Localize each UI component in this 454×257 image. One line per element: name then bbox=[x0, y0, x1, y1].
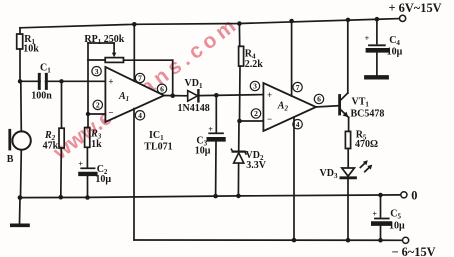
svg-text:2: 2 bbox=[96, 101, 100, 110]
svg-text:−: − bbox=[267, 114, 272, 124]
svg-text:− 6~15V: − 6~15V bbox=[392, 245, 436, 257]
svg-text:+: + bbox=[78, 160, 83, 169]
svg-text:C5: C5 bbox=[390, 209, 401, 221]
svg-text:3.3V: 3.3V bbox=[246, 160, 267, 171]
svg-text:+: + bbox=[267, 90, 272, 100]
svg-text:10k: 10k bbox=[23, 44, 39, 55]
svg-text:7: 7 bbox=[296, 83, 300, 92]
svg-text:100n: 100n bbox=[31, 90, 52, 101]
svg-text:470Ω: 470Ω bbox=[355, 139, 378, 150]
svg-text:C1: C1 bbox=[40, 63, 51, 75]
svg-text:+: + bbox=[208, 125, 213, 134]
svg-text:BC5478: BC5478 bbox=[351, 109, 385, 120]
svg-text:7: 7 bbox=[138, 74, 142, 83]
svg-text:3: 3 bbox=[253, 82, 257, 91]
svg-text:10μ: 10μ bbox=[95, 174, 111, 185]
svg-text:B: B bbox=[7, 154, 14, 165]
svg-text:RP1 250k: RP1 250k bbox=[84, 34, 124, 46]
svg-text:4: 4 bbox=[138, 111, 142, 120]
svg-text:TL071: TL071 bbox=[144, 142, 172, 153]
svg-text:4: 4 bbox=[296, 120, 300, 129]
svg-text:47k: 47k bbox=[43, 141, 59, 152]
svg-text:1k: 1k bbox=[91, 139, 102, 150]
svg-text:0: 0 bbox=[411, 188, 417, 202]
svg-text:+: + bbox=[365, 34, 370, 43]
svg-text:+: + bbox=[372, 209, 377, 218]
svg-text:VD3: VD3 bbox=[320, 168, 338, 180]
svg-text:10μ: 10μ bbox=[387, 47, 403, 58]
svg-text:+: + bbox=[108, 76, 113, 86]
svg-text:IC1: IC1 bbox=[149, 130, 164, 142]
svg-text:VT1: VT1 bbox=[352, 97, 370, 109]
svg-text:6: 6 bbox=[160, 85, 164, 94]
svg-text:2: 2 bbox=[254, 109, 258, 118]
svg-text:6: 6 bbox=[317, 95, 321, 104]
svg-text:10μ: 10μ bbox=[389, 221, 405, 232]
svg-text:2.2k: 2.2k bbox=[245, 59, 263, 70]
svg-text:10μ: 10μ bbox=[195, 146, 211, 157]
svg-text:−: − bbox=[108, 108, 113, 118]
svg-text:3: 3 bbox=[95, 67, 99, 76]
svg-text:C4: C4 bbox=[389, 35, 400, 47]
svg-text:+ 6V~15V: + 6V~15V bbox=[389, 1, 442, 15]
svg-text:VD1: VD1 bbox=[185, 78, 203, 90]
svg-text:1N4148: 1N4148 bbox=[178, 103, 210, 114]
